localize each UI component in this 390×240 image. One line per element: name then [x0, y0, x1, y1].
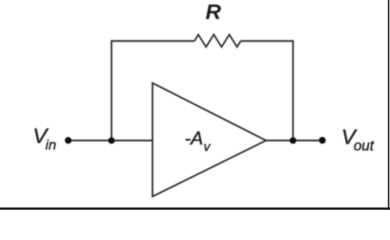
node: feedback-output junction dot — [290, 137, 297, 144]
wire: feedback top-left horizontal segment — [112, 40, 195, 42]
resistor R — [195, 35, 241, 47]
svg-text:in: in — [45, 137, 56, 153]
node: feedback-input junction dot — [108, 137, 115, 144]
node Vin terminal dot — [65, 137, 72, 144]
wire: right frame line — [388, 0, 390, 210]
wire: bottom frame line — [0, 208, 390, 210]
node Vout terminal dot — [319, 137, 326, 144]
wire: feedback left vertical segment — [111, 40, 113, 140]
wire: input horizontal segment — [68, 140, 153, 142]
op-amp U1 (inverting amplifier triangle) — [153, 83, 267, 197]
svg-text:R: R — [206, 0, 222, 24]
svg-text:out: out — [354, 139, 375, 155]
wire: feedback top-right horizontal segment — [241, 40, 293, 42]
wire: output horizontal segment — [266, 140, 322, 142]
wire: feedback right vertical segment — [292, 40, 294, 140]
svg-text:-A: -A — [185, 128, 204, 149]
